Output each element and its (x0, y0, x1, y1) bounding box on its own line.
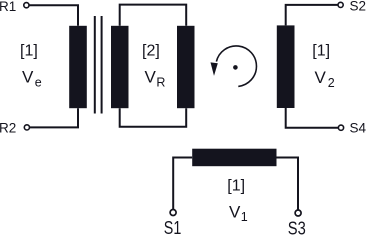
svg-text:R2: R2 (0, 121, 16, 136)
svg-text:R: R (156, 76, 165, 90)
transformer core line 2 (101, 16, 103, 114)
wire S2 to stator winding (286, 5, 338, 26)
winding Ve primary bar (69, 26, 87, 108)
rotation axis dot (233, 65, 238, 70)
winding VR left bar (111, 26, 129, 108)
terminal S3 (295, 210, 301, 216)
wire VR bottom loop (120, 108, 187, 127)
terminal R2 (24, 125, 29, 130)
wire S4 to stator winding (286, 108, 339, 128)
svg-text:[1]: [1] (227, 177, 245, 194)
winding VR right bar (177, 26, 195, 108)
svg-text:[2]: [2] (142, 42, 160, 59)
terminal R1 (24, 3, 29, 8)
winding V2 stator bar (277, 25, 295, 108)
svg-text:V: V (145, 68, 157, 87)
svg-text:S2: S2 (350, 0, 367, 14)
wire R1 to stator winding (29, 5, 78, 26)
transformer core line 1 (94, 16, 96, 114)
svg-text:1: 1 (241, 210, 248, 224)
terminal S2 (338, 2, 343, 7)
svg-text:[1]: [1] (20, 42, 38, 59)
svg-text:S3: S3 (288, 219, 306, 238)
svg-text:S4: S4 (350, 121, 367, 136)
rotation arrow arc (216, 46, 256, 86)
svg-text:S1: S1 (164, 218, 182, 237)
rotation arrow head (211, 62, 218, 76)
svg-text:[1]: [1] (312, 42, 330, 59)
svg-text:R1: R1 (0, 0, 16, 14)
terminal S4 (338, 125, 343, 130)
wire V1 to S3 (277, 158, 299, 211)
wire R2 to stator winding (30, 108, 79, 127)
svg-text:V: V (22, 68, 34, 87)
svg-text:V: V (229, 202, 241, 221)
svg-text:e: e (35, 76, 42, 90)
winding V1 rotor bar (192, 149, 276, 167)
svg-text:V: V (315, 68, 327, 87)
terminal S1 (170, 210, 176, 216)
wire V1 to S1 (173, 158, 192, 210)
wire VR top loop (120, 5, 187, 26)
svg-text:2: 2 (328, 76, 335, 90)
